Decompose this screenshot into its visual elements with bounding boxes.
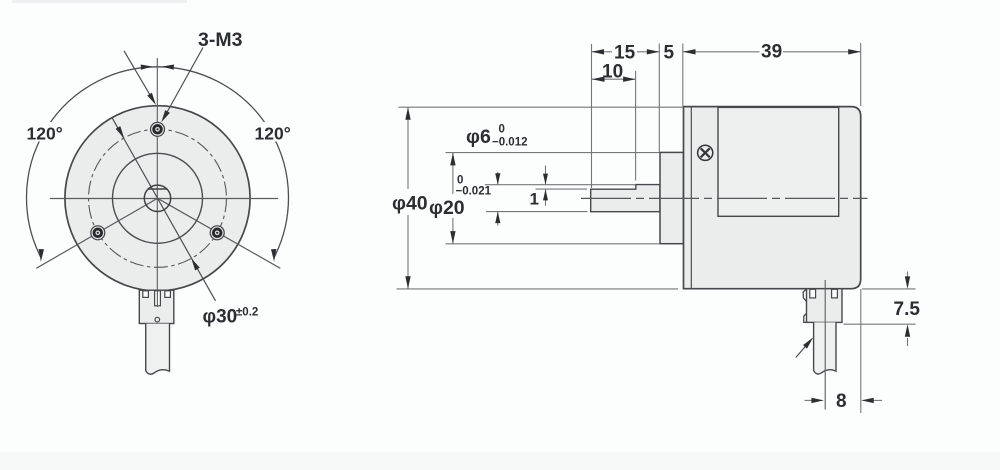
bolt radial line 330deg bbox=[158, 198, 281, 268]
extension line shaft tip bbox=[591, 44, 593, 188]
horizontal chain centerline bbox=[581, 197, 868, 199]
arrow 39 right bbox=[848, 49, 861, 54]
arrow 10 left bbox=[592, 77, 605, 82]
arrow 39 left bbox=[683, 49, 696, 54]
boss circle phi20 bbox=[113, 153, 203, 243]
screw cross symbol bbox=[698, 145, 713, 160]
svg-text:8: 8 bbox=[836, 391, 847, 412]
bolt radial line 210deg bbox=[36, 198, 157, 268]
svg-text:φ30: φ30 bbox=[203, 307, 238, 328]
arrow 10 right bbox=[623, 77, 636, 82]
arrow phi20 top bbox=[450, 153, 455, 166]
dimension line 10 bbox=[592, 78, 636, 80]
arc knockout behind right 120 label bbox=[253, 122, 296, 142]
vertical centerline bbox=[156, 58, 158, 307]
bolt screw lower-right bbox=[210, 226, 224, 240]
120 degree arc bbox=[26, 67, 288, 258]
centerline through gland slot bbox=[156, 291, 158, 307]
top cropped text remnant bbox=[12, 0, 187, 3]
gland ear notch left bbox=[143, 291, 149, 298]
arrow dim1 up bbox=[543, 189, 548, 200]
arrow arc left end pointing down bbox=[39, 249, 44, 262]
arrow phi40 top bbox=[405, 107, 410, 120]
arrow cable leader bbox=[803, 337, 813, 348]
svg-text:120°: 120° bbox=[255, 124, 291, 144]
arrow 7.5 down bbox=[905, 276, 910, 289]
7.5 top reference line bbox=[862, 288, 916, 290]
phi20 dimension line bbox=[452, 153, 454, 194]
gland ear notch right bbox=[832, 289, 838, 298]
arrow 3-M3 leader bbox=[161, 110, 170, 122]
svg-text:φ20: φ20 bbox=[429, 197, 465, 219]
phi30 dimension diagonal line bbox=[112, 117, 216, 301]
arrow phi20 bottom bbox=[450, 231, 455, 244]
svg-text:−0.021: −0.021 bbox=[456, 186, 492, 198]
extension line body front for 5 and 39 bbox=[682, 44, 684, 107]
arrow 15 left bbox=[592, 49, 605, 54]
upper-left leader line to circle top bbox=[124, 51, 155, 103]
8 dimension line right bbox=[871, 399, 882, 401]
arrow dim1 down bbox=[543, 174, 548, 185]
arrow phi30 lower pointing up-left bbox=[191, 258, 200, 270]
phi6 extension bottom bbox=[486, 211, 588, 213]
mounting bolt circle phi30 chain line bbox=[89, 129, 227, 267]
svg-text:±0.2: ±0.2 bbox=[236, 307, 258, 319]
arrow arc right end pointing down bbox=[271, 249, 276, 262]
8 dimension line left bbox=[805, 399, 815, 401]
horizontal centerline bbox=[50, 198, 278, 200]
extension line body rear for 39 bbox=[860, 43, 862, 106]
arc knockout behind left 120 label bbox=[25, 122, 67, 142]
svg-text:5: 5 bbox=[664, 43, 675, 64]
gland center slot bbox=[155, 291, 161, 306]
gland left latch hook bbox=[803, 289, 806, 302]
svg-text:39: 39 bbox=[761, 42, 782, 63]
bottom footer band remnant bbox=[0, 452, 1000, 470]
arrow 7.5 up bbox=[905, 324, 910, 337]
extension line flat end for 10 bbox=[635, 71, 637, 181]
phi6 dimension line lower bbox=[497, 212, 499, 226]
7.5 arrow stems bbox=[907, 272, 909, 280]
boss phi20 bbox=[660, 152, 684, 243]
cable leader line bbox=[796, 341, 811, 358]
phi6 extension top shaft edge extended bbox=[485, 184, 636, 186]
arrow phi6 top pointing down bbox=[495, 173, 500, 185]
arrow top-angle left pointing right bbox=[141, 65, 153, 70]
arrow 8 right-pointing bbox=[811, 398, 824, 403]
phi20 extension bottom bbox=[446, 243, 660, 245]
body edge extension line down bbox=[860, 289, 862, 413]
svg-text:φ6: φ6 bbox=[466, 126, 491, 148]
svg-text:10: 10 bbox=[602, 62, 623, 83]
side cable gland block bbox=[807, 289, 843, 323]
shaft D-cut flat chord bbox=[148, 188, 167, 190]
side cable with break bbox=[814, 322, 836, 374]
phi40 extension top bbox=[399, 106, 684, 108]
gland bottom-left notch bbox=[804, 314, 807, 323]
flat level extension line bbox=[536, 188, 588, 190]
shaft profile with D-cut step bbox=[591, 185, 660, 212]
dimension line 39 bbox=[683, 51, 760, 53]
gland ear notch left bbox=[810, 289, 816, 298]
7.5 bottom reference line bbox=[844, 323, 916, 325]
phi40 extension bottom bbox=[397, 288, 679, 290]
bolt screw top bbox=[151, 122, 165, 136]
svg-text:1: 1 bbox=[530, 190, 539, 209]
svg-text:15: 15 bbox=[614, 43, 636, 64]
arrow phi6 bottom pointing up bbox=[495, 212, 500, 224]
dim 1 line upper bbox=[545, 166, 547, 185]
shaft circle phi6 bbox=[144, 185, 170, 211]
dimension line 15 bbox=[592, 51, 613, 53]
svg-text:3-M3: 3-M3 bbox=[198, 29, 243, 51]
svg-text:120°: 120° bbox=[27, 124, 63, 144]
arrow phi40 bottom bbox=[405, 276, 410, 289]
gland ear notch right bbox=[165, 291, 171, 298]
encoder body side bbox=[684, 107, 861, 289]
front plate line bbox=[690, 107, 692, 289]
arrow 8 left-pointing bbox=[861, 398, 874, 403]
cable centerline bbox=[824, 280, 826, 410]
3-M3 leader line bbox=[164, 48, 204, 119]
arrow top-angle right pointing left bbox=[162, 65, 174, 70]
gland screw hole bbox=[155, 317, 160, 322]
extension line shaft end for 15 bbox=[658, 44, 660, 152]
arrow phi30 upper pointing down-right bbox=[116, 126, 125, 138]
arrow upper-left leader pointing down-right bbox=[147, 93, 156, 105]
svg-text:φ40: φ40 bbox=[392, 193, 428, 215]
svg-text:0: 0 bbox=[499, 124, 505, 136]
arrow 15 right bbox=[647, 49, 660, 54]
dim 1 line lower bbox=[545, 190, 547, 206]
phi6 dimension line upper bbox=[497, 172, 499, 185]
bolt screw lower-left bbox=[91, 226, 105, 240]
front cable gland block bbox=[139, 290, 174, 323]
phi40 dimension line bbox=[407, 107, 409, 189]
svg-text:−0.012: −0.012 bbox=[492, 137, 528, 149]
encoder body outer circle phi40 bbox=[65, 106, 250, 291]
front cable with break bbox=[146, 324, 170, 375]
svg-text:7.5: 7.5 bbox=[894, 299, 921, 320]
body panel rectangle bbox=[718, 107, 839, 216]
phi20 extension top bbox=[446, 152, 660, 154]
